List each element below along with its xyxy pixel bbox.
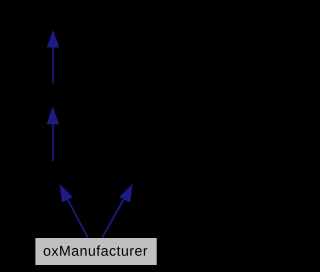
inheritance arrow 2 (middle vertical, pointing up) : shaft [52, 124, 54, 161]
node oxManufacturer (grey box) [35, 238, 156, 265]
inheritance arrow 3 head [60, 185, 72, 202]
inheritance arrow 1 head [47, 31, 59, 47]
node oxManufacturer label [44, 245, 148, 255]
inheritance arrow 1 (top vertical, pointing up) : shaft [52, 47, 54, 83]
inheritance arrow 4 (diagonal up-right from oxManufacturer) : shaft [102, 198, 124, 238]
inheritance arrow 3 (diagonal up-left from oxManufacturer) : shaft [67, 197, 88, 237]
inheritance arrow 2 head [47, 107, 59, 124]
inheritance arrow 4 head [120, 184, 133, 202]
